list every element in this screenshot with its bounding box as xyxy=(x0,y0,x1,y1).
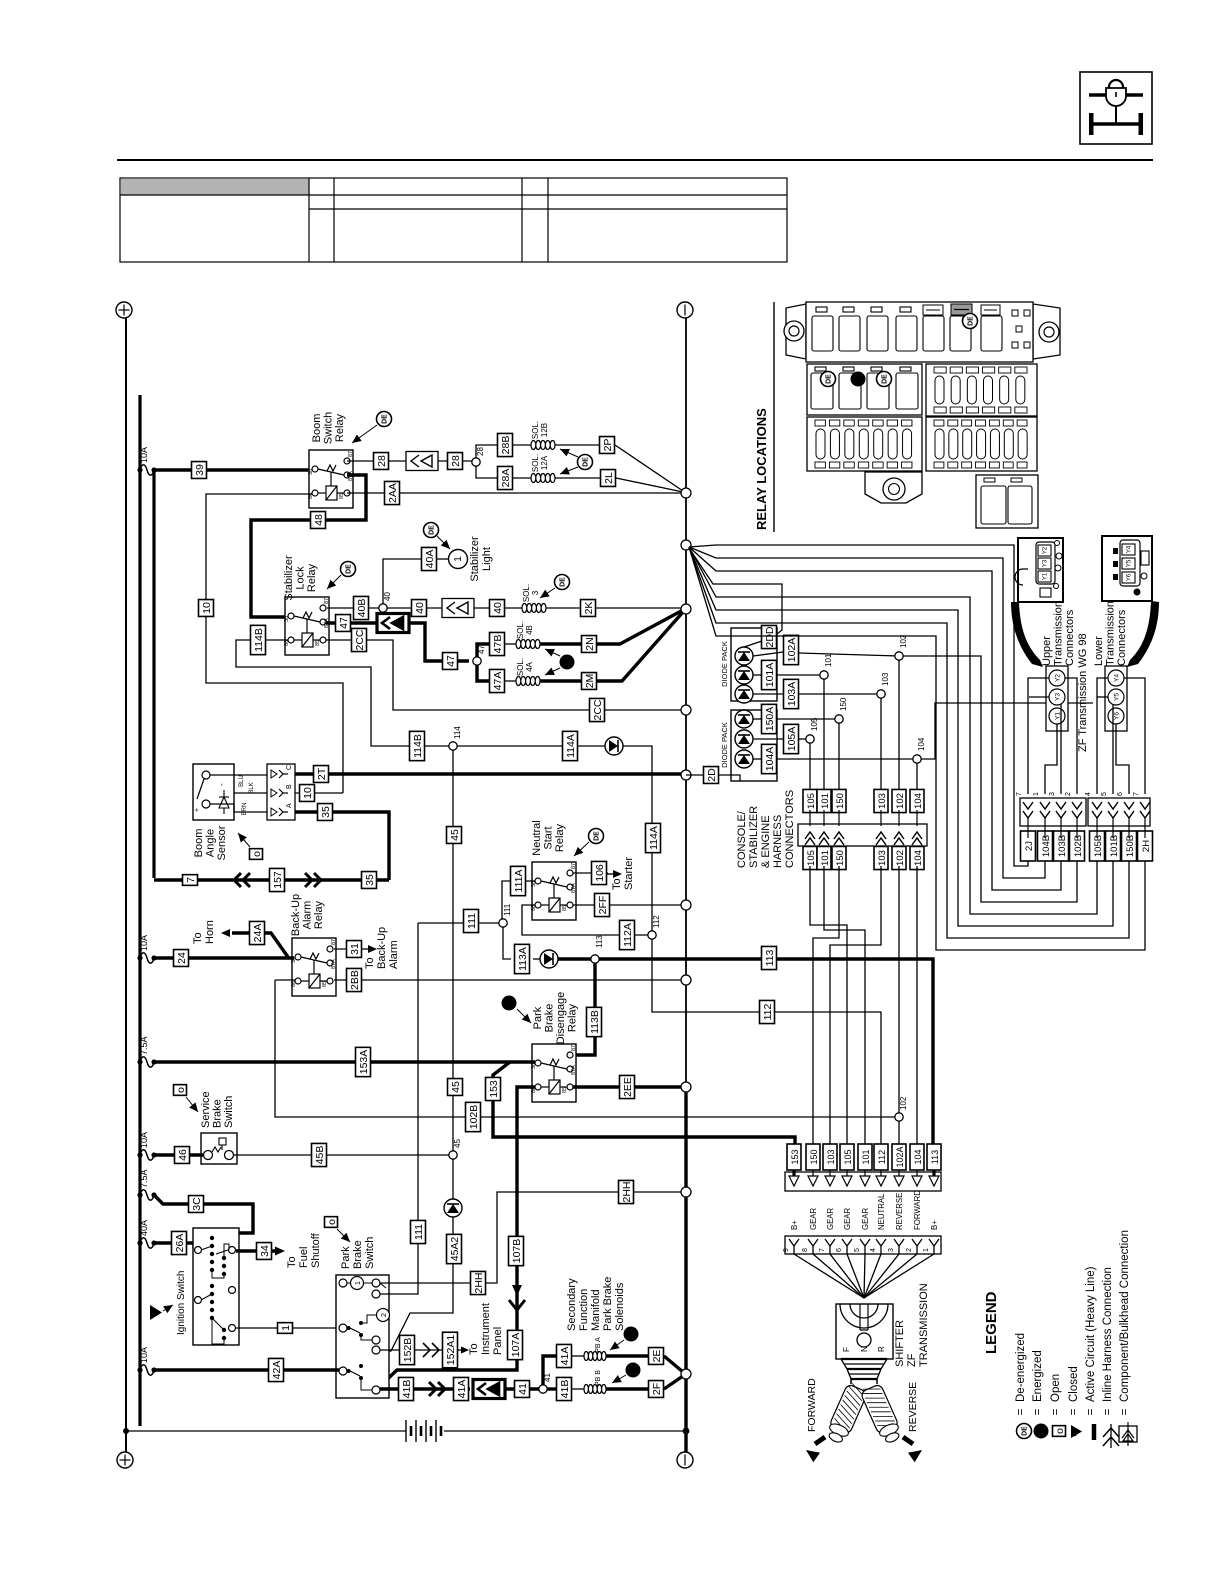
svg-text:2D: 2D xyxy=(706,768,718,782)
svg-text:12A: 12A xyxy=(540,455,549,470)
pointer arrow xyxy=(560,467,578,475)
border corner marker top-right (1) xyxy=(677,302,693,318)
relay: Boom Switch Relay xyxy=(308,450,354,508)
svg-text:7: 7 xyxy=(819,1248,826,1252)
svg-text:41A: 41A xyxy=(456,1380,468,1399)
solenoid coil PB A xyxy=(584,1352,606,1361)
wire label 150 shifter connector xyxy=(806,1144,820,1170)
wire label 2K xyxy=(581,600,596,617)
wire xyxy=(744,641,762,647)
wire label 101 console lower xyxy=(817,846,831,869)
svg-text:E: E xyxy=(629,1331,636,1336)
junction 28 xyxy=(472,458,480,466)
svg-text:SHIFTER: SHIFTER xyxy=(894,1320,906,1367)
wire label 41A b xyxy=(557,1344,572,1367)
wire xyxy=(753,738,783,740)
fuse 10A boom circuit xyxy=(137,447,156,475)
svg-text:4: 4 xyxy=(1085,792,1092,796)
svg-text:To: To xyxy=(364,957,376,969)
wire label 2HH a xyxy=(471,1271,486,1294)
upper transmission connectors label xyxy=(1041,601,1076,666)
border junction 2K/2N/2M xyxy=(681,604,691,614)
svg-text:45B: 45B xyxy=(314,1146,326,1165)
wire 104 drop to console connector xyxy=(916,763,918,792)
forward arrow xyxy=(806,1437,825,1462)
junction 113 xyxy=(591,955,599,963)
svg-text:Stabilizer: Stabilizer xyxy=(469,536,481,582)
svg-text:105A: 105A xyxy=(786,727,798,752)
border junction harness fan xyxy=(681,540,691,550)
pointer arrow xyxy=(560,449,578,457)
svg-text:2F: 2F xyxy=(651,1383,663,1395)
svg-text:Inline Harness Connection: Inline Harness Connection xyxy=(1102,1267,1114,1402)
reverse arrow xyxy=(903,1437,922,1462)
svg-text:26A: 26A xyxy=(174,1234,186,1253)
wire label 35 a xyxy=(318,804,333,821)
svg-text:To: To xyxy=(286,1256,298,1268)
svg-text:Panel: Panel xyxy=(492,1327,504,1355)
connector terminal Y2 xyxy=(1049,670,1065,686)
svg-text:Back-Up: Back-Up xyxy=(376,927,388,969)
svg-text:112A: 112A xyxy=(622,923,634,947)
svg-text:102A: 102A xyxy=(786,638,798,663)
shifter knob reverse (hatched) xyxy=(859,1382,904,1446)
svg-text:101: 101 xyxy=(820,850,831,866)
wire label 113 b xyxy=(762,946,777,969)
svg-text:30: 30 xyxy=(284,616,290,622)
wire label 2J xyxy=(1021,831,1036,861)
svg-text:Shutoff: Shutoff xyxy=(310,1232,322,1268)
wire label 152B xyxy=(400,1335,415,1364)
power bus 1 (fused feed) xyxy=(138,395,141,1426)
fork contact pin 2 xyxy=(906,1239,922,1254)
svg-text:7.5A: 7.5A xyxy=(139,1169,149,1188)
fuse 40A ignition switch feed xyxy=(137,1220,156,1248)
upper transmission connector photo xyxy=(1015,538,1063,602)
boom switch relay name xyxy=(311,412,346,444)
svg-text:10A: 10A xyxy=(139,447,149,463)
wire xyxy=(615,445,683,491)
wire xyxy=(326,640,683,710)
shifter bellows xyxy=(841,1359,887,1384)
wire label 2T xyxy=(314,766,329,783)
diode pack lower xyxy=(720,710,777,781)
wire label 103 console lower xyxy=(874,846,888,869)
svg-text:Alarm: Alarm xyxy=(302,901,314,930)
wire xyxy=(295,772,683,775)
svg-text:4: 4 xyxy=(870,1248,877,1252)
wire label 111 b xyxy=(411,1220,426,1243)
battery symbol xyxy=(406,1420,441,1442)
wire xyxy=(540,679,581,682)
svg-text:87A: 87A xyxy=(571,883,577,893)
wire xyxy=(415,1349,442,1351)
connector terminal Y5 xyxy=(1108,689,1124,705)
lower transmission Y connector block xyxy=(1105,666,1127,731)
wire xyxy=(623,746,652,931)
svg-text:47: 47 xyxy=(445,655,457,667)
svg-text:40: 40 xyxy=(492,602,504,614)
svg-text:103: 103 xyxy=(877,850,888,866)
DE marker fuse box middle a xyxy=(821,372,836,387)
wire label 101 console upper xyxy=(817,789,831,812)
svg-text:85: 85 xyxy=(339,493,345,499)
wire xyxy=(295,812,389,880)
wire xyxy=(573,872,608,874)
solenoid coil SOL 3 xyxy=(522,604,546,613)
svg-text:Lower: Lower xyxy=(1093,636,1105,666)
wire xyxy=(503,927,511,959)
fuse box: left mounting bracket xyxy=(784,304,806,359)
wire label 102 console upper xyxy=(892,789,906,812)
wire label 47 b xyxy=(443,653,458,670)
wire xyxy=(799,653,899,656)
svg-text:2E: 2E xyxy=(651,1350,663,1363)
svg-text:FORWARD: FORWARD xyxy=(913,1190,922,1230)
wire label 3C xyxy=(189,1196,204,1213)
svg-text:102: 102 xyxy=(895,850,906,866)
DE symbol SOL 3 xyxy=(555,575,570,590)
wire xyxy=(234,792,267,794)
svg-text:Starter: Starter xyxy=(623,857,635,890)
wire xyxy=(777,718,839,720)
svg-text:103: 103 xyxy=(881,672,890,686)
wire xyxy=(753,718,761,720)
svg-text:SOL.: SOL. xyxy=(516,658,525,676)
svg-text:7: 7 xyxy=(185,877,197,883)
wire xyxy=(513,444,531,446)
svg-text:5: 5 xyxy=(854,1248,861,1252)
wire label 10 b xyxy=(300,785,315,802)
wire label 1 xyxy=(278,1323,293,1334)
diode symbol 114A xyxy=(605,737,623,755)
wire label 28A xyxy=(498,466,513,489)
wire label 2L xyxy=(601,470,616,487)
svg-text:DE: DE xyxy=(560,577,567,587)
svg-text:2HH: 2HH xyxy=(473,1272,485,1293)
svg-text:Energized: Energized xyxy=(1032,1350,1044,1402)
svg-text:DE: DE xyxy=(1022,1426,1029,1436)
svg-text:111: 111 xyxy=(413,1224,425,1240)
svg-text:87: 87 xyxy=(324,598,330,604)
wire transmission harness loop 104B xyxy=(689,547,1045,878)
wire xyxy=(234,1154,449,1156)
wire shifter pin 153 xyxy=(794,1254,864,1298)
wire xyxy=(597,612,683,681)
wire label 39 xyxy=(192,462,207,479)
border corner marker bottom-left (+) xyxy=(117,1452,133,1468)
console connector chevrons 105 xyxy=(805,810,815,845)
wire label 113A xyxy=(515,944,530,973)
wire xyxy=(452,750,454,1151)
svg-text:86: 86 xyxy=(531,905,537,911)
relay locations heading xyxy=(754,408,769,530)
svg-text:Function: Function xyxy=(578,1289,590,1331)
svg-text:40A: 40A xyxy=(424,550,436,569)
svg-text:2CC: 2CC xyxy=(354,629,366,650)
wire shifter pin 112 xyxy=(864,1254,881,1298)
svg-text:113A: 113A xyxy=(517,947,529,971)
wire label 102A shifter connector xyxy=(892,1144,906,1170)
svg-text:2HH: 2HH xyxy=(621,1181,633,1202)
svg-text:101A: 101A xyxy=(764,663,776,688)
wire label 105A xyxy=(784,724,799,753)
svg-text:Brake: Brake xyxy=(544,1004,556,1033)
wire label 113 shifter connector xyxy=(927,1144,941,1170)
reverse label xyxy=(907,1382,919,1432)
wire xyxy=(378,1354,517,1388)
wire 103 drop to console connector xyxy=(880,698,882,792)
wire xyxy=(546,607,580,609)
legend heading xyxy=(983,1291,1000,1354)
svg-text:STABILIZER: STABILIZER xyxy=(748,806,760,868)
battery junction left xyxy=(123,1428,129,1434)
SOL 3 name xyxy=(522,584,540,602)
legend inline harness symbol xyxy=(1103,1424,1119,1448)
legend heavy line symbol xyxy=(1092,1424,1097,1440)
wire label 41B b xyxy=(557,1377,572,1400)
svg-text:=: = xyxy=(1085,1408,1097,1415)
svg-text:R: R xyxy=(877,1346,886,1352)
wire xyxy=(555,444,599,446)
svg-text:Active Circuit (Heavy Line): Active Circuit (Heavy Line) xyxy=(1085,1266,1097,1402)
svg-text:2: 2 xyxy=(381,1313,388,1317)
wire xyxy=(777,674,824,676)
wire label 112 shifter connector xyxy=(874,1144,888,1170)
wire 150 crossover xyxy=(813,866,839,1145)
relay: Park Brake Disengage Relay xyxy=(531,1044,577,1102)
shifter name label xyxy=(894,1283,930,1367)
SOL 4A name xyxy=(516,658,534,676)
transmission connector pin 7 chevrons xyxy=(1016,792,1033,838)
wire xyxy=(154,1243,194,1248)
svg-text:102B: 102B xyxy=(1073,835,1084,857)
wire xyxy=(477,665,489,681)
wire 103 crossover xyxy=(830,866,881,1145)
wire xyxy=(616,478,683,492)
svg-text:Brake: Brake xyxy=(352,1240,364,1269)
svg-text:ZF: ZF xyxy=(906,1353,918,1367)
svg-text:Relay: Relay xyxy=(567,1003,579,1032)
wire shifter pin 113 xyxy=(864,1254,934,1298)
svg-text:2T: 2T xyxy=(316,767,328,780)
wire label 46 xyxy=(175,1147,190,1164)
to backup alarm label xyxy=(364,927,400,969)
svg-text:2CC: 2CC xyxy=(592,699,604,720)
svg-text:o: o xyxy=(175,1087,187,1093)
svg-text:GEAR: GEAR xyxy=(861,1208,870,1230)
wire xyxy=(664,1376,683,1389)
svg-text:7.5A: 7.5A xyxy=(139,1036,149,1055)
svg-text:41B: 41B xyxy=(559,1380,571,1399)
svg-text:DE: DE xyxy=(882,374,889,384)
axle lock icon xyxy=(1080,72,1152,144)
shifter function labels xyxy=(790,1190,939,1230)
svg-text:o: o xyxy=(1054,1428,1066,1434)
pointer arrow xyxy=(540,588,555,598)
wire transmission harness loop 103B xyxy=(689,547,1061,890)
pointer arrow xyxy=(186,1097,198,1112)
wire xyxy=(380,1387,470,1390)
wire label 153 a xyxy=(486,1077,501,1100)
inline harness heavy connector 41 xyxy=(473,1380,505,1399)
wire xyxy=(236,1249,275,1252)
E symbol PB B xyxy=(626,1363,641,1378)
legend DE symbol xyxy=(1017,1424,1032,1439)
svg-text:Ignition Switch: Ignition Switch xyxy=(176,1271,187,1335)
svg-text:2N: 2N xyxy=(584,637,596,650)
relay locations underline xyxy=(773,302,775,532)
svg-text:Service: Service xyxy=(200,1091,212,1128)
wire label 2F xyxy=(649,1381,664,1398)
wire label 31 xyxy=(347,941,362,958)
wire xyxy=(664,1356,683,1372)
svg-text:Back-Up: Back-Up xyxy=(290,894,302,936)
wire label 105 console lower xyxy=(803,846,817,869)
legend closed symbol xyxy=(1071,1425,1082,1438)
wire label 102 console lower xyxy=(892,846,906,869)
park brake switch name xyxy=(340,1237,376,1269)
wire label 114B b xyxy=(410,731,425,760)
svg-text:Solenoids: Solenoids xyxy=(614,1282,626,1331)
fork contact pin 3 xyxy=(888,1239,904,1254)
wire 105 drop to console connector xyxy=(809,743,811,792)
svg-text:101B: 101B xyxy=(1109,835,1120,857)
wire xyxy=(476,445,497,458)
svg-text:40: 40 xyxy=(414,602,426,614)
svg-text:To: To xyxy=(611,878,623,890)
wire label 104 console lower xyxy=(910,846,924,869)
svg-text:Park: Park xyxy=(532,1006,544,1029)
wire label 24 xyxy=(174,950,189,967)
svg-text:B: B xyxy=(286,784,293,789)
fuse box: bottom mounting bracket xyxy=(865,472,922,503)
svg-text:Component/Bulkhead Connection: Component/Bulkhead Connection xyxy=(1119,1230,1131,1402)
wire label 113B xyxy=(587,1007,602,1036)
svg-text:103B: 103B xyxy=(1057,835,1068,857)
wire xyxy=(572,1388,584,1390)
wire label 152A1 xyxy=(443,1332,458,1368)
lower transmission connector photo xyxy=(1102,536,1152,601)
boom angle sensor connector xyxy=(267,764,295,820)
transmission connector pin 5 chevrons xyxy=(1101,792,1118,838)
svg-text:NEUTRAL: NEUTRAL xyxy=(877,1193,886,1230)
svg-text:35: 35 xyxy=(320,806,332,818)
svg-text:41A: 41A xyxy=(559,1347,571,1366)
svg-text:Connectors: Connectors xyxy=(1116,609,1128,666)
svg-text:2H: 2H xyxy=(1141,840,1152,852)
svg-text:Closed: Closed xyxy=(1068,1366,1080,1402)
svg-text:Switch: Switch xyxy=(323,412,335,444)
fork contact pin 9 xyxy=(783,1239,799,1254)
svg-text:DE: DE xyxy=(583,457,590,467)
wire label 103B xyxy=(1054,831,1069,861)
diode symbol 45A2 xyxy=(444,1199,462,1217)
svg-text:Relay: Relay xyxy=(313,900,325,929)
border junction 2AA xyxy=(681,488,691,498)
svg-text:Open: Open xyxy=(1050,1374,1062,1402)
wire label 104 shifter connector xyxy=(910,1144,924,1170)
wire shifter pin 150 xyxy=(813,1254,864,1298)
wire xyxy=(334,979,683,981)
svg-text:B+: B+ xyxy=(790,1220,799,1230)
pointer arrow xyxy=(327,575,341,589)
svg-text:Start: Start xyxy=(543,826,555,849)
svg-text:34: 34 xyxy=(259,1245,271,1257)
svg-text:104B: 104B xyxy=(1041,835,1052,857)
svg-text:HARNESS: HARNESS xyxy=(772,815,784,868)
svg-text:Stabilizer: Stabilizer xyxy=(283,555,295,601)
console stabilizer connectors heading xyxy=(736,790,796,868)
svg-text:47A: 47A xyxy=(492,672,504,691)
wire xyxy=(543,1356,556,1385)
wire xyxy=(547,1387,556,1390)
wire xyxy=(380,923,418,1294)
wire xyxy=(295,792,343,794)
svg-text:114B: 114B xyxy=(412,734,424,758)
wire label 42A xyxy=(269,1358,284,1381)
svg-text:104: 104 xyxy=(917,737,926,751)
svg-text:45: 45 xyxy=(450,1081,462,1093)
diode in upper pack at y675 xyxy=(735,666,753,684)
fuse box: small contact squares right end xyxy=(1012,310,1030,348)
svg-text:85: 85 xyxy=(562,905,568,911)
legend E symbol xyxy=(1034,1424,1049,1439)
svg-text:+: + xyxy=(194,808,201,812)
bulkhead connector 28 xyxy=(406,452,438,471)
svg-text:DIODE PACK: DIODE PACK xyxy=(720,722,729,768)
wire xyxy=(558,959,933,1145)
wire transmission harness loop 2H xyxy=(689,547,1145,950)
wire xyxy=(753,693,783,695)
svg-text:Light: Light xyxy=(481,547,493,571)
svg-text:Neutral: Neutral xyxy=(531,820,543,855)
svg-text:152A1: 152A1 xyxy=(445,1335,457,1366)
svg-text:Boom: Boom xyxy=(311,414,323,443)
bottom battery wire xyxy=(126,1430,406,1432)
svg-text:114B: 114B xyxy=(253,628,265,652)
wire label 2H xyxy=(1138,831,1153,861)
svg-text:Y5: Y5 xyxy=(1114,693,1121,701)
console connector chevrons 150 xyxy=(834,810,844,845)
border junction 2FF xyxy=(681,900,691,910)
wire xyxy=(154,1368,339,1371)
border corner marker top-left (+) xyxy=(116,302,132,318)
wire label 114A b xyxy=(646,823,661,852)
svg-text:107A: 107A xyxy=(510,1333,522,1358)
svg-text:BLU: BLU xyxy=(239,775,245,787)
pointer arrow xyxy=(545,668,560,676)
E marker fuse box middle xyxy=(851,372,866,387)
wire label 41B a xyxy=(399,1377,414,1400)
svg-text:113: 113 xyxy=(595,935,604,948)
wire xyxy=(719,775,740,781)
wire label 40 b xyxy=(490,600,505,617)
junction 47 xyxy=(473,657,481,665)
wire xyxy=(606,1354,648,1357)
svg-text:2DD: 2DD xyxy=(764,626,776,647)
svg-text:47B: 47B xyxy=(492,635,504,654)
neutral start relay name xyxy=(531,820,566,855)
wire label 28 a xyxy=(374,453,389,470)
wire label 2HH b xyxy=(619,1180,634,1203)
svg-text:150: 150 xyxy=(809,1149,819,1164)
wire xyxy=(154,1060,535,1063)
wire xyxy=(799,693,881,695)
svg-text:Boom: Boom xyxy=(193,829,205,858)
wire xyxy=(347,492,683,494)
wire label 101 shifter connector xyxy=(858,1144,872,1170)
